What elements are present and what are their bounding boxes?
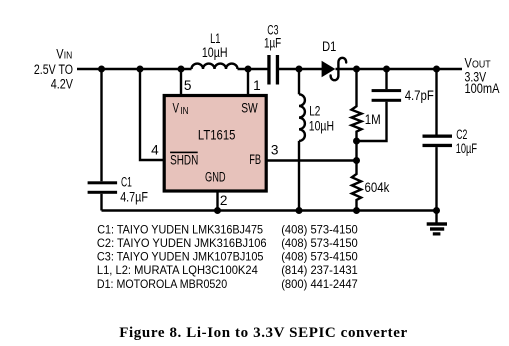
svg-text:V: V: [173, 101, 180, 116]
svg-text:SHDN: SHDN: [170, 152, 198, 167]
svg-text:10µF: 10µF: [456, 141, 477, 156]
svg-text:L1: L1: [210, 31, 220, 46]
svg-text:C1: TAIYO YUDEN LMK316BJ475: C1: TAIYO YUDEN LMK316BJ475: [97, 223, 263, 236]
svg-text:604k: 604k: [365, 180, 390, 195]
svg-text:(408) 573-4150: (408) 573-4150: [281, 237, 358, 250]
svg-text:V: V: [56, 47, 63, 62]
svg-text:D1: D1: [322, 39, 336, 54]
svg-text:C2: C2: [456, 127, 467, 142]
svg-text:100mA: 100mA: [465, 81, 500, 96]
svg-text:L2: L2: [309, 104, 320, 119]
svg-text:1: 1: [253, 78, 261, 93]
svg-text:C1: C1: [121, 175, 132, 190]
svg-text:2: 2: [220, 193, 228, 208]
svg-text:(408) 573-4150: (408) 573-4150: [281, 251, 358, 264]
svg-text:4.2V: 4.2V: [51, 76, 73, 91]
svg-text:IN: IN: [180, 106, 188, 117]
svg-text:FB: FB: [249, 152, 261, 167]
svg-text:LT1615: LT1615: [198, 127, 236, 142]
svg-text:Figure 8. Li-Ion to 3.3V SEPIC: Figure 8. Li-Ion to 3.3V SEPIC converter: [119, 325, 407, 341]
svg-text:GND: GND: [205, 170, 226, 185]
svg-text:5: 5: [184, 78, 192, 93]
svg-text:2.5V TO: 2.5V TO: [34, 62, 73, 77]
svg-text:C2: TAIYO YUDEN JMK316BJ106: C2: TAIYO YUDEN JMK316BJ106: [97, 237, 267, 250]
svg-text:C3: TAIYO YUDEN JMK107BJ105: C3: TAIYO YUDEN JMK107BJ105: [97, 251, 264, 264]
svg-text:(800) 441-2447: (800) 441-2447: [281, 278, 358, 291]
svg-text:SW: SW: [241, 101, 258, 116]
svg-text:1M: 1M: [365, 112, 381, 127]
svg-text:IN: IN: [64, 51, 73, 62]
svg-text:1µF: 1µF: [264, 36, 281, 51]
svg-text:4: 4: [151, 142, 159, 157]
svg-text:3: 3: [271, 142, 279, 157]
svg-text:10µH: 10µH: [309, 118, 334, 133]
svg-text:4.7pF: 4.7pF: [405, 88, 434, 103]
svg-text:D1: MOTOROLA MBR0520: D1: MOTOROLA MBR0520: [97, 278, 227, 291]
svg-text:L1, L2: MURATA LQH3C100K24: L1, L2: MURATA LQH3C100K24: [97, 264, 258, 277]
svg-text:V: V: [465, 55, 472, 70]
svg-text:10µH: 10µH: [202, 45, 228, 60]
svg-text:(408) 573-4150: (408) 573-4150: [281, 223, 358, 236]
svg-text:(814) 237-1431: (814) 237-1431: [281, 264, 358, 277]
svg-text:4.7µF: 4.7µF: [120, 189, 148, 204]
